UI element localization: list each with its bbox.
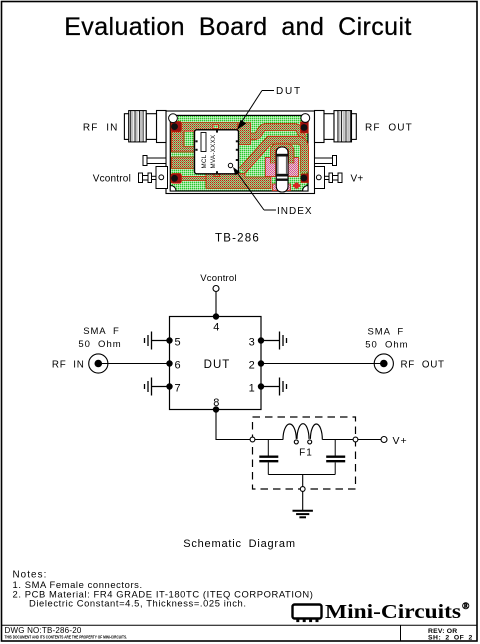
ground (filter) — [293, 511, 313, 518]
callout INDEX with arrow — [233, 167, 313, 217]
svg-text:6: 6 — [175, 359, 181, 371]
copper pad block right of chip — [238, 123, 251, 145]
Vcontrol pin connector (board) — [139, 167, 168, 189]
filter F1 dashed enclosure — [253, 417, 356, 489]
copper: left top L trace — [172, 123, 239, 152]
wire RF IN to pin 6 — [102, 363, 170, 365]
svg-text:V+: V+ — [393, 435, 408, 447]
ground at pin 7 — [145, 378, 170, 396]
copper serpentine trace — [250, 127, 305, 140]
svg-text:RF IN: RF IN — [83, 122, 119, 133]
capacitor C1 — [259, 440, 278, 475]
svg-text:DUT: DUT — [276, 86, 302, 97]
svg-text:50 Ohm: 50 Ohm — [78, 339, 121, 350]
svg-text:50 Ohm: 50 Ohm — [365, 340, 408, 351]
svg-text:RF OUT: RF OUT — [365, 122, 413, 133]
pin 2 junction dot — [258, 360, 264, 366]
green island in ground pour — [184, 131, 194, 147]
svg-text:TB-286: TB-286 — [215, 232, 260, 244]
wire capacitor commons — [268, 474, 335, 476]
notes block — [13, 570, 314, 609]
svg-text:7: 7 — [175, 382, 181, 394]
svg-text:SMA F: SMA F — [83, 326, 120, 337]
svg-text:1: 1 — [249, 382, 255, 394]
inductor (F1 choke) — [283, 424, 322, 444]
pad under capacitor — [273, 184, 291, 191]
header pin upper-right (board) — [315, 156, 337, 166]
node filter output — [353, 437, 358, 442]
svg-text:2: 2 — [249, 359, 255, 371]
svg-text:THIS DOCUMENT AND ITS CONTENTS: THIS DOCUMENT AND ITS CONTENTS ARE THE P… — [5, 634, 128, 639]
copper bottom ground band — [206, 174, 271, 189]
capacitor pads (pink) — [265, 158, 275, 177]
svg-text:Evaluation Board and Circuit: Evaluation Board and Circuit — [64, 13, 412, 41]
PCB substrate (green) — [170, 115, 308, 191]
corner notches — [170, 185, 176, 191]
svg-text:RF OUT: RF OUT — [401, 359, 445, 370]
callout DUT with arrow — [237, 86, 302, 130]
SMA connector RF OUT (board) — [315, 111, 357, 143]
node filter input — [250, 437, 255, 442]
svg-text:3: 3 — [249, 336, 255, 348]
Mini-Circuits logo — [293, 601, 471, 623]
ground at pin 5 — [145, 332, 170, 350]
svg-text:4: 4 — [213, 321, 219, 333]
connector J2 RF OUT terminal — [374, 354, 393, 373]
svg-text:DUT: DUT — [204, 359, 231, 371]
header pin upper-left (board) — [143, 156, 166, 166]
SMA solder pads — [171, 122, 309, 184]
svg-text:Vcontrol: Vcontrol — [93, 173, 131, 184]
copper arch over capacitor — [273, 147, 291, 164]
svg-text:MCL: MCL — [201, 154, 208, 168]
wire node to ground symbol — [302, 491, 304, 510]
svg-text:RF IN: RF IN — [52, 359, 85, 370]
ground at pin 1 — [261, 378, 287, 396]
V+ pin connector (board) — [315, 167, 343, 189]
wire node to inductor — [255, 439, 283, 441]
pin 4 junction dot — [213, 313, 219, 319]
board housing (metal case) — [166, 111, 315, 194]
SMA connector RF IN (board) — [124, 111, 166, 143]
capacitor C2 — [326, 440, 345, 475]
wire Vcontrol to pin 4 — [215, 292, 217, 317]
copper diagonal and bias trace — [243, 140, 305, 172]
svg-text:5: 5 — [175, 336, 181, 348]
wire pin 8 to filter input — [216, 410, 250, 440]
DUT chip MVA-XXXX (board) — [195, 130, 239, 174]
ground at pin 3 — [261, 332, 287, 350]
wire node to V+ — [358, 439, 381, 441]
svg-text:F1: F1 — [299, 448, 313, 459]
svg-text:V+: V+ — [351, 173, 364, 184]
svg-text:MVA-XXXX: MVA-XXXX — [210, 135, 217, 169]
copper Vcontrol pad — [172, 157, 196, 168]
svg-text:Vcontrol: Vcontrol — [200, 273, 236, 284]
svg-text:Schematic Diagram: Schematic Diagram — [183, 538, 296, 550]
terminal V+ — [381, 437, 387, 443]
pin 6 junction dot — [166, 360, 172, 366]
svg-text:INDEX: INDEX — [277, 206, 313, 217]
node filter ground — [300, 487, 305, 492]
component pads near chip — [213, 125, 219, 129]
title block separator line — [2, 624, 478, 626]
wire inductor to node — [322, 439, 353, 441]
DUT box (U1) — [170, 317, 262, 410]
pin 3 junction dot — [258, 337, 264, 343]
pin 7 junction dot — [166, 383, 172, 389]
svg-text:SH: 2 OF 2: SH: 2 OF 2 — [428, 634, 473, 641]
feedthrough capacitor (board) — [276, 147, 289, 192]
pin 8 junction dot — [213, 406, 219, 412]
title block vertical divider — [400, 625, 402, 641]
svg-text:Dielectric Constant=4.5, Thick: Dielectric Constant=4.5, Thickness=.025 … — [29, 598, 247, 609]
svg-text:®: ® — [462, 601, 470, 612]
copper Vcontrol trace — [180, 176, 212, 180]
svg-text:Mini-Circuits: Mini-Circuits — [325, 601, 461, 623]
terminal Vcontrol — [213, 286, 219, 292]
connector J1 RF IN terminal — [89, 354, 108, 373]
mounting holes — [169, 114, 178, 123]
svg-text:8: 8 — [213, 397, 219, 409]
wire to ground node — [302, 475, 304, 487]
title block text fields — [5, 626, 473, 642]
pin 1 junction dot — [258, 383, 264, 389]
wire pin 2 to RF OUT — [261, 363, 381, 365]
red cross pad — [293, 183, 300, 189]
svg-text:SMA F: SMA F — [368, 327, 405, 338]
pin 5 junction dot — [166, 337, 172, 343]
